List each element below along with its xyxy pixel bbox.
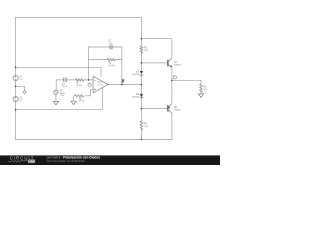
probe circle at output node [173,76,176,79]
ground for V3 [53,101,58,105]
svg-text:http://circuitlab.com/c4t41kf0: http://circuitlab.com/c4t41kf0 [47,159,85,163]
wire emitter column [171,67,173,103]
svg-text:1 µF: 1 µF [108,43,113,45]
wire Q2 collector down [171,114,173,140]
wire negative bus [16,109,103,111]
transistor Q2 [168,104,172,114]
svg-text:LM741: LM741 [97,85,104,87]
capacitor C2 [110,45,112,50]
source V2 [13,96,18,101]
diode D2 [140,94,143,98]
resistor R4 [140,121,143,130]
source V1 [13,75,18,80]
diode D1 [140,71,143,75]
ground for RL [198,94,203,98]
svg-text:8 Ω: 8 Ω [204,89,208,91]
wire non-inverting input to R5 [74,89,94,101]
probe circle at op-amp [88,83,91,86]
wire output node to load [172,80,201,94]
wire feedback loop C2 top branch [89,46,122,48]
svg-text:1 1k): 1 1k) [60,95,65,97]
op-amp OA1 [93,76,108,93]
probe flag at op-amp output [122,79,125,83]
resistor R3 [140,46,143,53]
transistor Q1 [168,58,172,68]
wire op-amp V- pin to bus [101,88,103,110]
svg-text:100 kΩ: 100 kΩ [108,65,115,67]
wire op-amp output to diode midpoint [108,84,142,86]
component labels [19,40,207,128]
wire feedback loop right vertical [121,47,123,85]
resistor RL [200,84,203,92]
source V3 sine [54,90,58,94]
wire Q2 base [141,108,167,110]
wire outer loop left vertical [15,18,17,140]
wire V3 to ground [55,95,57,102]
wire Q1 base [141,62,167,64]
resistor R2 [107,58,116,60]
junction dots [15,38,173,140]
svg-text:1N4148: 1N4148 [132,97,140,99]
ground diamond at supply midpoint [23,91,26,94]
svg-text:LAB: LAB [28,159,35,163]
svg-text:2N3906: 2N3906 [174,110,182,112]
svg-text:1N4148: 1N4148 [132,74,140,76]
svg-text:10 µF: 10 µF [62,86,68,88]
svg-text:2N3904: 2N3904 [174,65,182,67]
footer logo zigzag and LAB [8,160,28,162]
wire feedback loop R2 branch [89,59,122,61]
wire positive supply to op-amp V+ [16,67,101,76]
footer bar [0,155,220,165]
capacitor C1 [64,78,66,83]
wire bias column x=141.4 [140,18,142,140]
wire input source to C1 and R1 [56,80,93,90]
svg-text:1 kΩ: 1 kΩ [144,50,149,52]
svg-text:47 kΩ: 47 kΩ [79,101,85,103]
resistor R1 [75,79,83,81]
wire feedback vertical to inverting input [88,47,90,80]
svg-text:1 kΩ: 1 kΩ [144,126,149,128]
wire outer loop bottom rail [16,138,172,140]
wire ground tap between V1 V2 [16,86,25,90]
svg-text:47 kΩ: 47 kΩ [76,85,82,87]
wire VCC branch to Q1 collector [141,39,172,58]
wire outer loop top rail [16,17,142,19]
ground for R5 [71,101,76,105]
resistor R5 [75,95,84,97]
